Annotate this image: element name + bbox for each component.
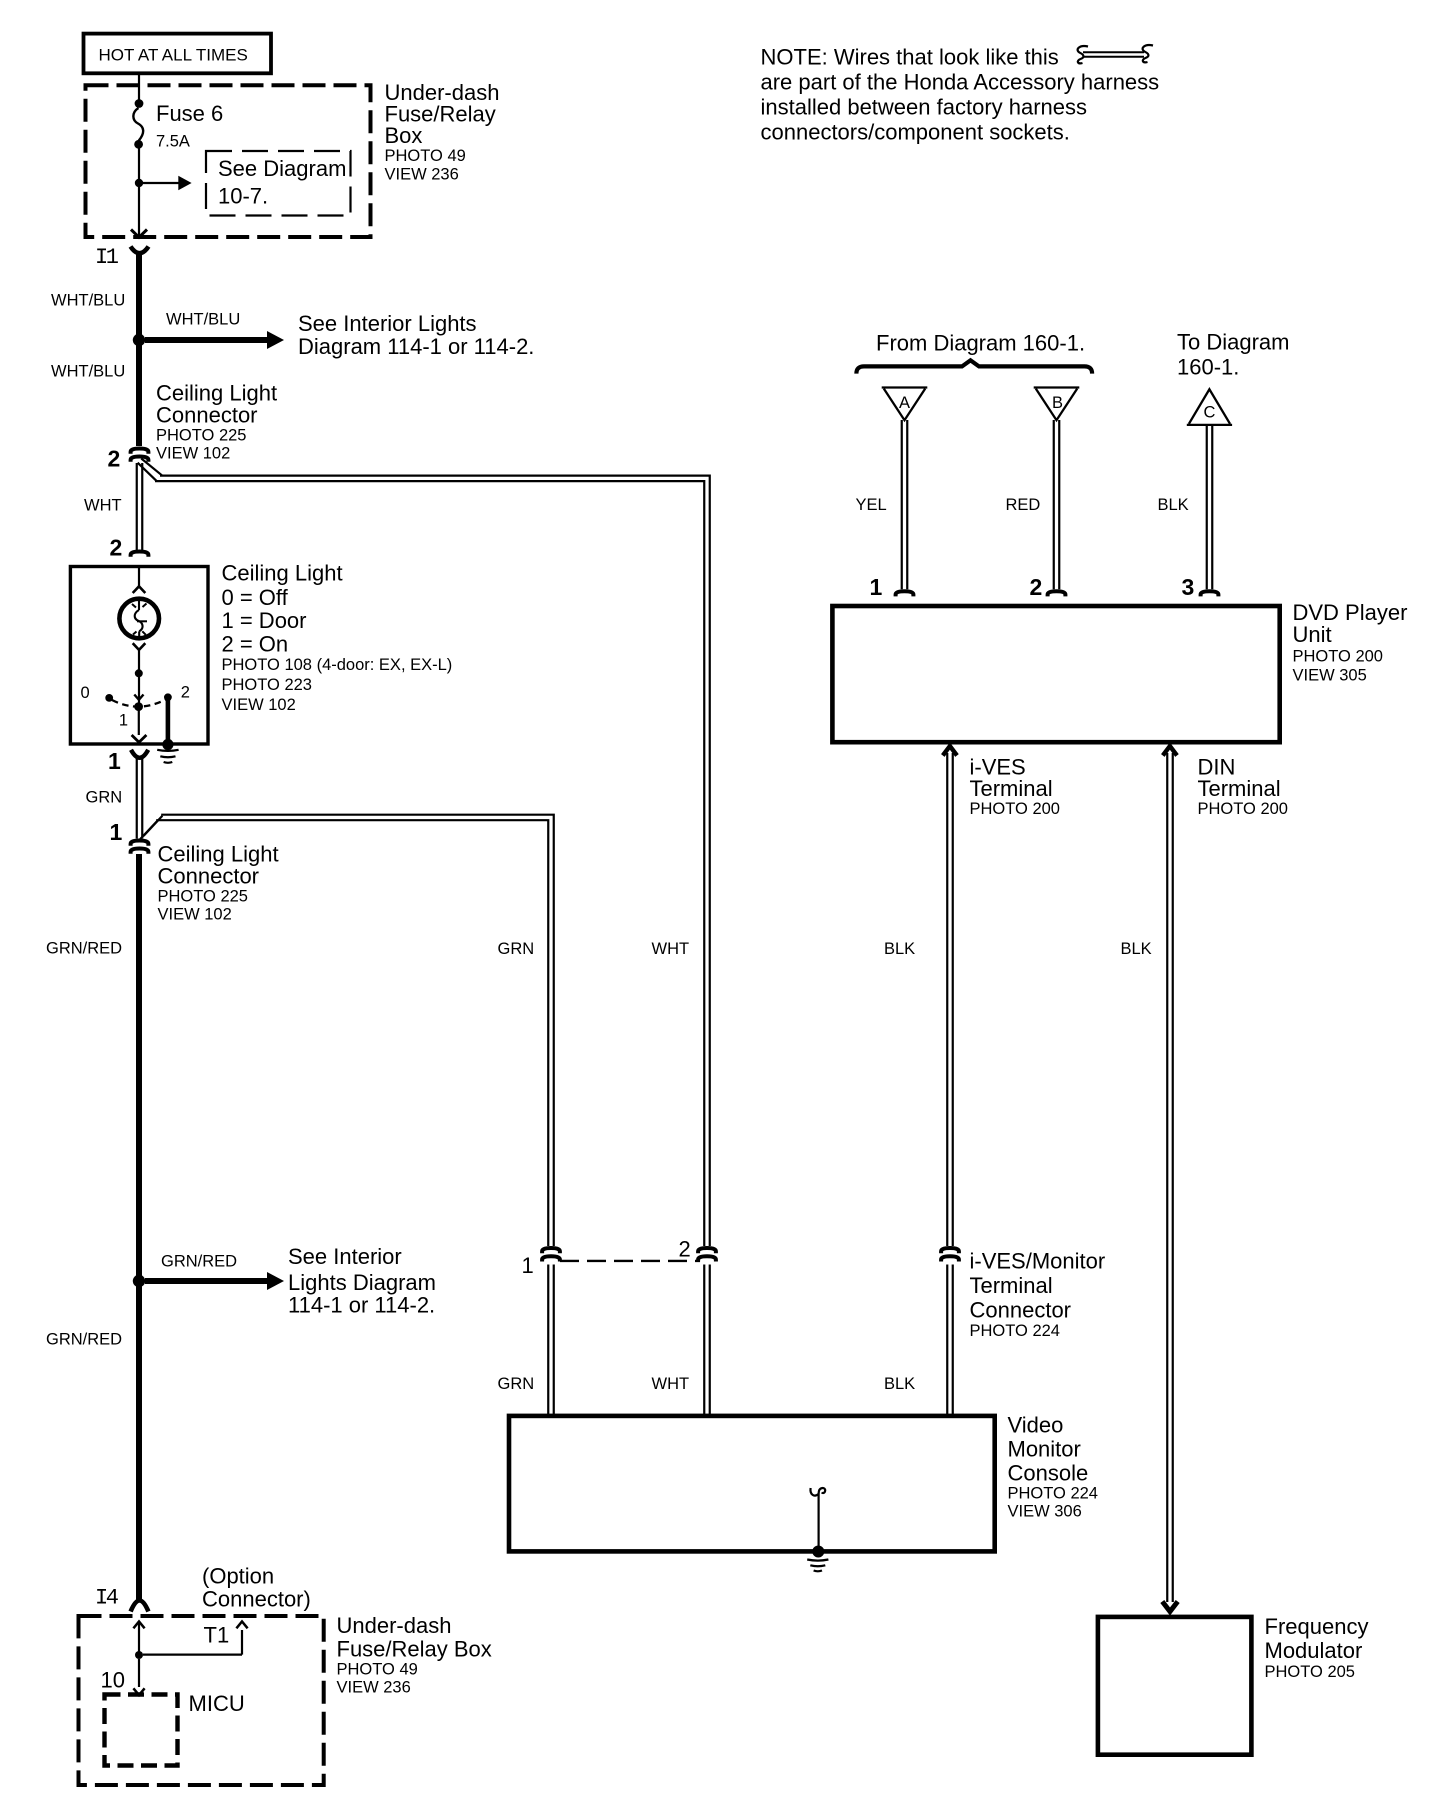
wire from HOT box to fuse [138,73,140,100]
svg-text:See Diagram: See Diagram [218,156,346,181]
Frequency Modulator box [1098,1617,1252,1755]
switch common dot [134,702,143,711]
i-VES terminal arrow at DVD bottom [943,746,957,756]
svg-text:PHOTO 205: PHOTO 205 [1265,1663,1355,1681]
svg-text:1: 1 [108,748,121,774]
svg-text:0: 0 [81,684,90,702]
svg-text:are part of the Honda Accessor: are part of the Honda Accessory harness [761,70,1160,95]
under-dash fuse/relay box (dashed) [86,85,371,237]
svg-text:3: 3 [1182,574,1195,600]
svg-text:2: 2 [1030,574,1043,600]
svg-text:PHOTO 200: PHOTO 200 [970,800,1060,818]
NOTE harness symbol right S-hook [1143,45,1153,62]
svg-text:Connector: Connector [158,864,260,889]
svg-text:1: 1 [110,819,123,845]
DIN terminal arrow at DVD bottom [1163,746,1177,756]
svg-text:VIEW 236: VIEW 236 [337,1679,411,1697]
wire GRN double-line to console [548,1265,554,1417]
svg-text:YEL: YEL [856,496,887,514]
wire GRN double-line horizontal run then down at x551 [156,815,554,1246]
svg-text:GRN: GRN [498,1375,535,1393]
connector I1 fork [131,247,149,254]
junction dot T1 branch [135,1651,143,1659]
svg-text:PHOTO 49: PHOTO 49 [337,1661,418,1679]
ceiling light box [70,567,208,745]
svg-text:MICU: MICU [189,1691,245,1716]
svg-text:I4: I4 [95,1586,119,1611]
svg-text:NOTE: Wires that look like thi: NOTE: Wires that look like this [761,45,1059,70]
triangle C [1187,389,1232,425]
svg-text:RED: RED [1006,496,1041,514]
svg-text:C: C [1204,404,1216,422]
wire RED double-line from B [1054,420,1060,589]
texts part 1 [46,46,534,1716]
chevron T1 [236,1622,247,1629]
console ground dot [812,1546,824,1558]
svg-text:VIEW 102: VIEW 102 [158,906,232,924]
wire position2 to ground [166,700,171,743]
svg-text:WHT/BLU: WHT/BLU [51,363,125,381]
svg-text:WHT: WHT [652,940,690,958]
svg-text:2: 2 [679,1237,691,1262]
junction dot interior lights branch 2 [133,1275,145,1287]
switch position 0 contact [105,694,113,702]
chevron below bulb [133,643,146,650]
svg-text:0 = Off: 0 = Off [222,585,289,610]
ceiling light connector pin2 (double arch) [131,449,149,454]
wire WHT/BLU thick I1 to node [136,251,142,337]
svg-text:Unit: Unit [1293,622,1332,647]
svg-text:Ceiling Light: Ceiling Light [222,561,343,586]
svg-text:(Option: (Option [202,1564,274,1589]
brace over A B triangles [856,360,1092,373]
svg-text:GRN: GRN [86,789,123,807]
wire WHT double-line diagonal branch [138,459,163,482]
svg-text:1: 1 [119,711,128,729]
svg-text:Fuse/Relay Box: Fuse/Relay Box [337,1637,492,1662]
arrow into MICU pin 10 [133,1688,144,1695]
svg-text:Video: Video [1008,1413,1064,1438]
svg-text:7.5A: 7.5A [156,133,190,151]
chevron above bulb [133,586,146,593]
NOTE harness symbol double line [1083,52,1144,57]
svg-text:See Interior: See Interior [288,1244,402,1269]
svg-text:2: 2 [110,535,123,561]
svg-text:VIEW 306: VIEW 306 [1008,1503,1082,1521]
svg-text:PHOTO 225: PHOTO 225 [156,427,246,445]
svg-text:1 = Door: 1 = Door [222,608,307,633]
svg-text:Monitor: Monitor [1008,1437,1081,1462]
node dot above fuse [135,99,144,108]
wire YEL double-line from A [902,420,908,589]
triangle A [882,388,928,421]
chevron at pin1 inside box [132,735,147,742]
svg-text:2 = On: 2 = On [222,631,289,656]
svg-text:Under-dash: Under-dash [337,1613,452,1638]
svg-text:I1: I1 [95,245,119,270]
wire bulb to switch [138,650,140,703]
svg-text:WHT: WHT [84,497,122,515]
DVD pin 1 arch [896,591,914,596]
svg-text:PHOTO 223: PHOTO 223 [222,676,312,694]
wire GRN double-line to connector [137,757,143,839]
svg-text:B: B [1052,394,1063,412]
wire I4 to junction [138,1623,140,1652]
svg-text:Terminal: Terminal [1198,776,1281,801]
wire BLK double-line to console [947,1265,953,1417]
svg-text:1: 1 [522,1253,534,1278]
thick arrow to interior lights diagram 2 [145,1278,267,1284]
DVD Player Unit box [832,606,1279,742]
wire BLK double-line i-VES down [947,753,953,1246]
wire to T1 [143,1630,242,1655]
svg-text:i-VES/Monitor: i-VES/Monitor [970,1249,1106,1274]
svg-text:VIEW 236: VIEW 236 [385,166,459,184]
ground dot [162,739,173,750]
svg-text:Terminal: Terminal [970,1273,1053,1298]
svg-text:From Diagram 160-1.: From Diagram 160-1. [876,331,1085,356]
svg-text:PHOTO 224: PHOTO 224 [970,1322,1060,1340]
wire WHT/BLU thick node to ceiling light connector [136,343,142,446]
MICU box (dashed) [105,1695,178,1766]
svg-text:Connector: Connector [970,1298,1072,1323]
svg-text:GRN: GRN [498,940,535,958]
wire junction to MICU [138,1659,140,1687]
svg-text:Terminal: Terminal [970,776,1053,801]
bulb filament [135,601,143,637]
thick arrow to interior lights diagram [145,337,267,343]
svg-text:Fuse 6: Fuse 6 [156,101,223,126]
svg-text:PHOTO 108 (4-door: EX, EX-L): PHOTO 108 (4-door: EX, EX-L) [222,656,453,674]
svg-text:A: A [899,394,910,412]
svg-text:VIEW 102: VIEW 102 [222,696,296,714]
svg-text:PHOTO 224: PHOTO 224 [1008,1485,1098,1503]
svg-text:BLK: BLK [884,940,915,958]
connector I4 fork [131,1601,149,1612]
wire fuse to I1 [138,144,140,236]
wire switch to pin1 [138,709,140,735]
svg-text:10: 10 [101,1668,125,1693]
chevron I4 entry [133,1622,144,1629]
Video Monitor Console box [509,1416,995,1552]
svg-text:Connector): Connector) [202,1587,311,1612]
connector fork below ceiling light [131,750,148,758]
console internal ground hook [810,1488,825,1496]
console ground wire [817,1496,819,1549]
arrow into frequency modulator [1162,1602,1177,1612]
svg-text:PHOTO 200: PHOTO 200 [1198,800,1288,818]
svg-text:Lights Diagram: Lights Diagram [288,1270,436,1295]
svg-text:installed between factory harn: installed between factory harness [761,95,1088,120]
ground symbol under console [807,1560,828,1572]
NOTE harness symbol left S-hook [1078,46,1088,63]
svg-text:Box: Box [385,123,423,148]
svg-text:GRN/RED: GRN/RED [46,940,122,958]
junction dot interior lights branch [133,334,145,346]
open arrowhead at fuse box exit [131,230,147,238]
ground symbol G401 [157,750,178,763]
node dot [135,669,143,677]
dashed link between connectors 1 and 2 [560,1260,700,1262]
svg-text:HOT AT ALL TIMES: HOT AT ALL TIMES [99,46,248,65]
svg-text:WHT: WHT [652,1375,690,1393]
fuse F6 squiggle [133,108,143,141]
bulb circle [119,599,159,639]
wire WHT double-line horizontal run then down at x707 [155,476,710,1246]
svg-text:Diagram 114-1 or 114-2.: Diagram 114-1 or 114-2. [298,334,534,359]
svg-text:To Diagram: To Diagram [1177,330,1289,355]
switch position 2 contact [164,693,172,701]
wire GRN double-line diagonal branch [140,816,162,839]
svg-text:160-1.: 160-1. [1177,355,1239,380]
svg-text:BLK: BLK [884,1375,915,1393]
node dot below fuse [134,140,143,149]
switch dashed throw arc [112,700,166,707]
svg-text:GRN/RED: GRN/RED [161,1253,237,1271]
svg-text:PHOTO 49: PHOTO 49 [385,147,466,165]
svg-text:10-7.: 10-7. [218,184,268,209]
wire BLK double-line DIN down [1167,753,1173,1602]
svg-text:Console: Console [1008,1461,1089,1486]
svg-text:2: 2 [108,446,121,472]
GRN connector 1 (double arch) [542,1248,560,1253]
svg-text:BLK: BLK [1121,940,1152,958]
switch arrow [134,695,143,700]
wire into bulb [138,568,140,586]
HOT AT ALL TIMES box [84,34,272,74]
wire GRN/RED thick down left column [136,854,142,1600]
svg-text:GRN/RED: GRN/RED [46,1331,122,1349]
svg-text:BLK: BLK [1158,496,1189,514]
svg-text:connectors/component sockets.: connectors/component sockets. [761,120,1070,145]
svg-text:WHT/BLU: WHT/BLU [166,311,240,329]
triangle B [1034,388,1080,421]
svg-text:PHOTO 225: PHOTO 225 [158,888,248,906]
svg-text:2: 2 [181,684,190,702]
DVD pin 2 arch [1048,591,1066,596]
svg-text:Frequency: Frequency [1265,1614,1369,1639]
i-VES/Monitor terminal connector (double arch) [941,1248,959,1253]
wire WHT double-line vertical to ceiling light [137,463,143,550]
svg-text:PHOTO 200: PHOTO 200 [1293,648,1383,666]
wire WHT double-line to console [704,1265,710,1417]
See Diagram 10-7 box (dashed) [206,151,351,216]
wire BLK double-line to C [1207,426,1213,589]
svg-text:114-1 or 114-2.: 114-1 or 114-2. [288,1293,435,1318]
under-dash fuse/relay box bottom (dashed) [79,1616,324,1785]
svg-text:WHT/BLU: WHT/BLU [51,292,125,310]
node junction to See Diagram 10-7 [135,179,143,187]
WHT connector 2 (double arch) [698,1248,716,1253]
ceiling light connector pin1 (double arch) [131,841,149,846]
svg-text:VIEW 102: VIEW 102 [156,445,230,463]
svg-text:T1: T1 [204,1623,230,1648]
svg-text:1: 1 [870,574,883,600]
svg-text:Modulator: Modulator [1265,1638,1363,1663]
ceiling light pin 2 arch [131,552,149,557]
DVD pin 3 arch [1201,591,1219,596]
arrow to See Diagram 10-7 [143,182,179,184]
svg-text:Connector: Connector [156,403,258,428]
svg-text:VIEW 305: VIEW 305 [1293,667,1367,685]
svg-text:See Interior Lights: See Interior Lights [298,311,477,336]
